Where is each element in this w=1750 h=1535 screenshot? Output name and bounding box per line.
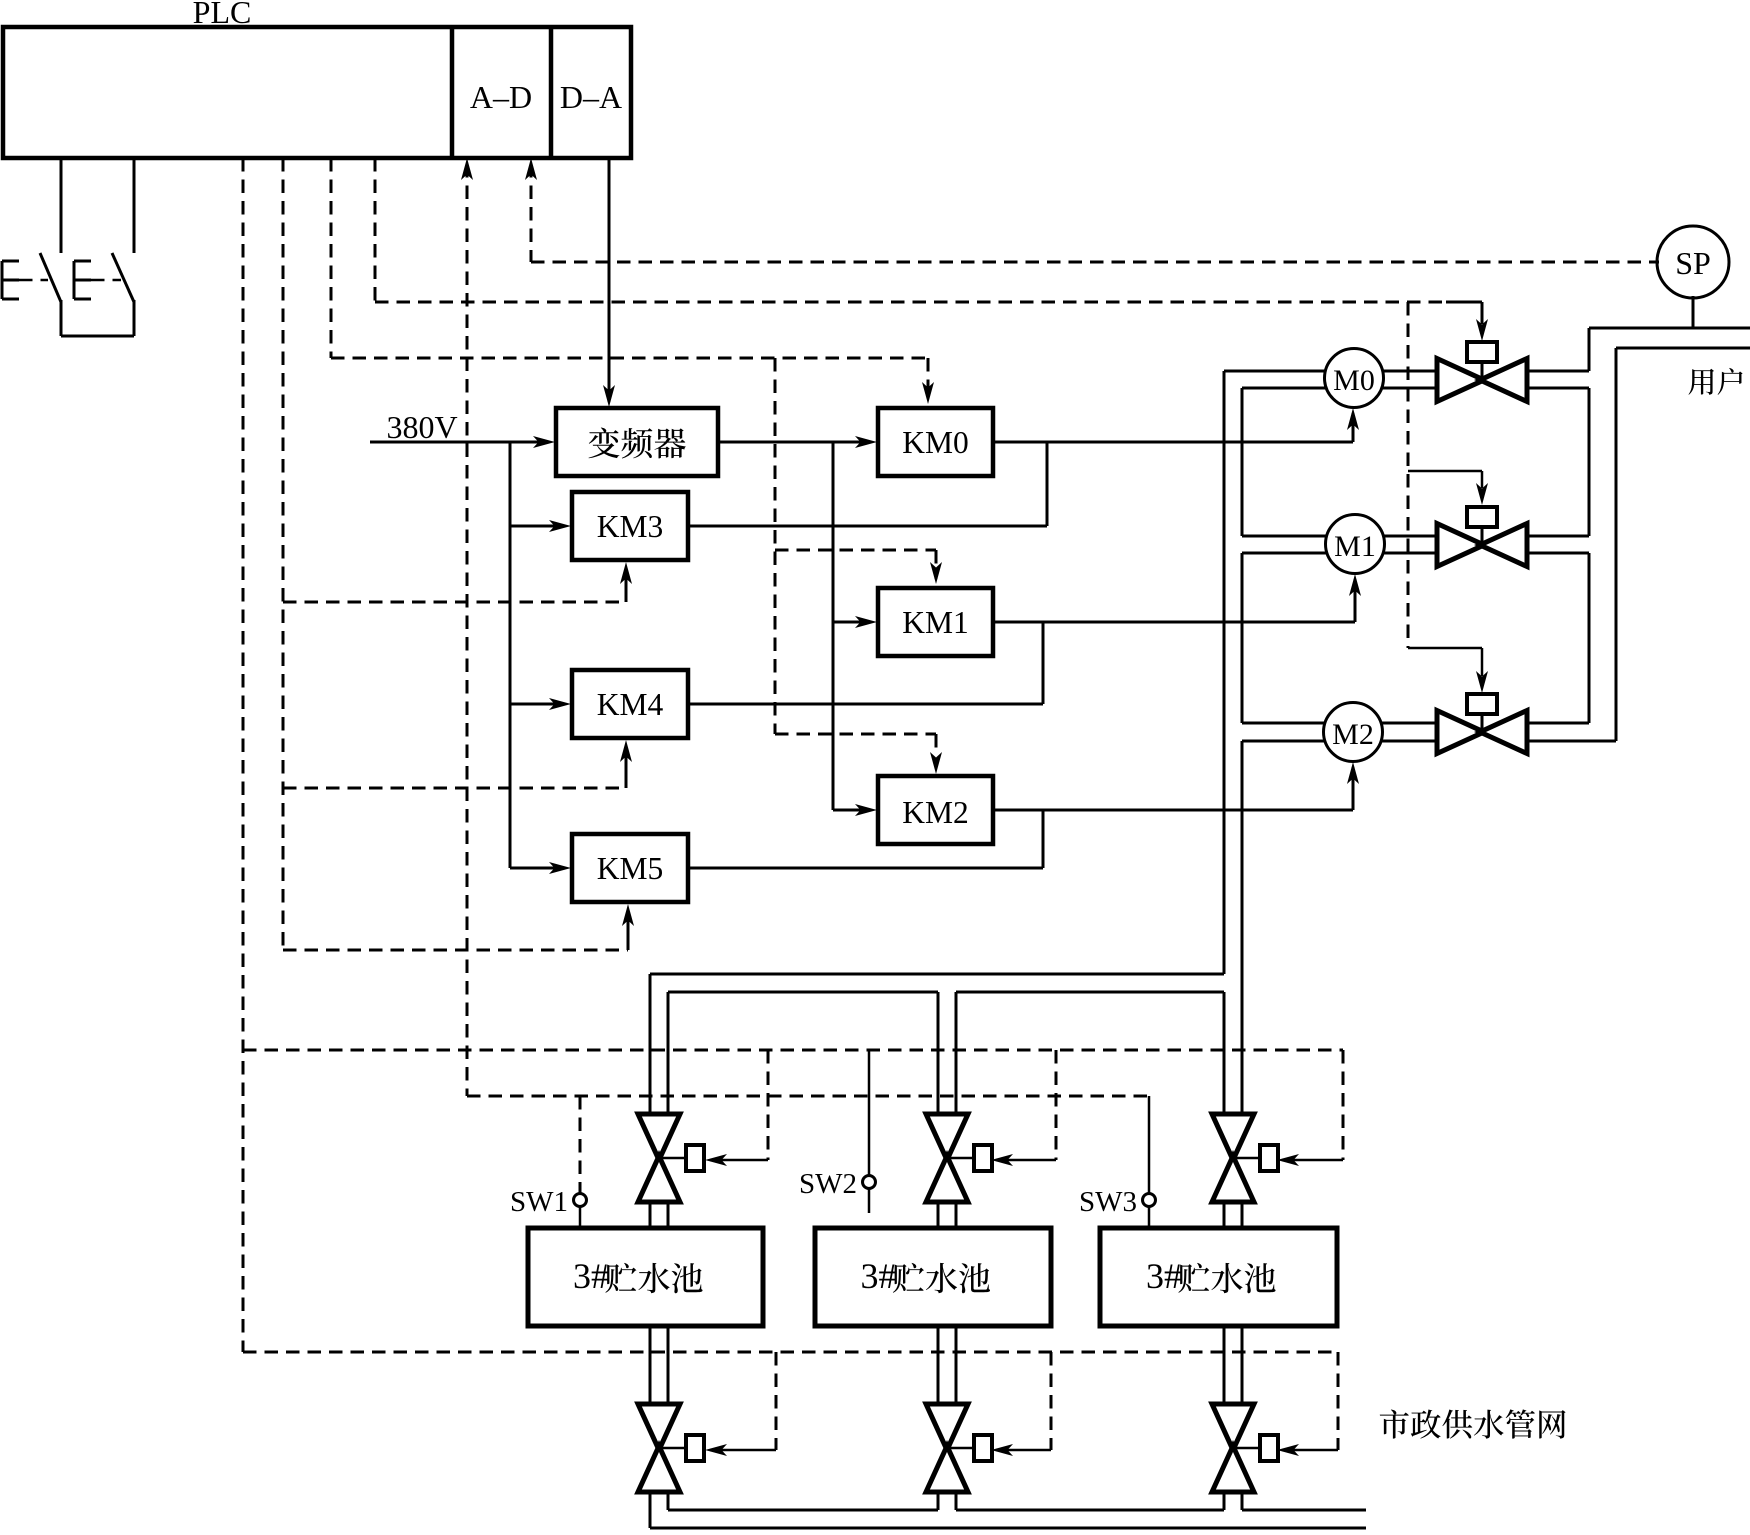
- pipe pump M1 to valve V1: [1355, 536, 1437, 553]
- wire PLC to switch SB2: [133, 158, 136, 253]
- D-A module label: [560, 79, 622, 115]
- wire KM3 output joins M0 feed: [688, 442, 1047, 526]
- contactor KM4 box: [572, 670, 688, 738]
- control drop to valve VS2 actuator: [991, 1050, 1056, 1166]
- control line to KM4 coil: [283, 740, 632, 788]
- control line to KM0 coil: [331, 358, 934, 404]
- svg-text:M0: M0: [1333, 364, 1375, 397]
- control line PLC output x243 (to bottom valves): [242, 158, 245, 1352]
- wire inverter output to KM0: [718, 436, 877, 448]
- PLC A-D module divider: [450, 27, 455, 158]
- tank 2 box: [815, 1228, 1051, 1326]
- tank 1 box: [528, 1228, 763, 1326]
- wire KM0 to pump M0: [993, 408, 1359, 442]
- PLC D-A module divider: [549, 27, 554, 158]
- wire below SB2: [133, 300, 136, 336]
- pipe tank2 outlet riser: [938, 992, 956, 1228]
- level switch SW1: [510, 1096, 587, 1228]
- pipe discharge manifold left line: [1588, 328, 1591, 723]
- svg-text:KM2: KM2: [902, 795, 969, 830]
- control line to valve V1 actuator: [1408, 471, 1488, 505]
- switch SB2 contact blade: [112, 253, 134, 302]
- svg-text:M1: M1: [1334, 530, 1376, 563]
- svg-text:A–D: A–D: [470, 79, 532, 115]
- link SB1 operator to blade: [19, 279, 48, 282]
- svg-text:SP: SP: [1675, 245, 1711, 281]
- signal bus level switches: [467, 1095, 1149, 1098]
- valve VF2 (tank2 fill): [926, 1404, 992, 1492]
- pipe riser to pump M2: [1242, 723, 1353, 741]
- pipe pump M0 to valve V0: [1354, 371, 1437, 388]
- contactor KM3 box: [572, 492, 688, 560]
- svg-text:380V: 380V: [386, 409, 457, 445]
- control drop to valve VS3 actuator: [1277, 1050, 1343, 1166]
- control drop to valve VF2 actuator: [991, 1352, 1051, 1456]
- control line to KM3 coil: [283, 562, 632, 602]
- pipe suction riser right line: [1241, 388, 1244, 1114]
- control drop to valve VF1 actuator: [705, 1352, 776, 1456]
- wire switch bottom bus: [61, 335, 134, 338]
- pipe valve V1 to manifold: [1527, 536, 1589, 553]
- pump M0: [1325, 349, 1384, 408]
- svg-text:D–A: D–A: [560, 79, 622, 115]
- wire 380V supply: [370, 436, 555, 448]
- pipe to user upper line: [1589, 327, 1750, 330]
- pipe municipal main lower line: [650, 1527, 1366, 1530]
- svg-text:M2: M2: [1332, 718, 1374, 751]
- wire 380V to KM4: [510, 698, 571, 710]
- wire 380V to KM5: [510, 862, 571, 874]
- pump M1: [1326, 515, 1385, 574]
- control line to valve V2 actuator: [1408, 648, 1488, 693]
- municipal network label: [1380, 1409, 1566, 1438]
- valve VF1 (tank1 fill): [638, 1404, 704, 1492]
- control line to valve V0 actuator: [375, 302, 1488, 341]
- svg-text:3#: 3#: [573, 1256, 609, 1296]
- wire KM2 to pump M2: [993, 762, 1359, 810]
- pipe to user lower line: [1616, 347, 1750, 350]
- A-D module label: [470, 79, 532, 115]
- pipe tank3 bottom: [1224, 1326, 1242, 1510]
- control line PLC output x375 (to discharge valves): [374, 158, 377, 302]
- wire 380V branch vertical: [509, 442, 512, 868]
- svg-text:SW2: SW2: [799, 1168, 857, 1200]
- pipe tank3 neck: [1224, 1202, 1242, 1228]
- control line PLC output x331 (to KM0/1/2 coils): [330, 158, 333, 358]
- pipe tank2 bottom: [938, 1326, 956, 1510]
- pipe suction riser left line: [1223, 371, 1226, 1114]
- level switch SW3: [1079, 1096, 1156, 1228]
- pump M2: [1324, 703, 1383, 762]
- pipe tank1 bottom: [650, 1326, 668, 1528]
- control drop to valve VS1 actuator: [705, 1050, 768, 1166]
- wire KM5 output joins M2 feed: [688, 810, 1043, 868]
- svg-text:3#: 3#: [861, 1256, 897, 1296]
- level switch SW2: [799, 1050, 876, 1213]
- wire 380V to KM3: [510, 520, 571, 532]
- valve V2 (pump M2 discharge): [1437, 694, 1527, 754]
- wire PLC to switch SB1: [60, 158, 63, 253]
- pressure sensor SP: [1657, 226, 1729, 298]
- switch SB1 contact blade: [40, 253, 61, 302]
- contactor KM5 box: [572, 834, 688, 902]
- signal line into PLC A-D x531 (pressure SP): [525, 158, 537, 262]
- valve V1 (pump M1 discharge): [1437, 507, 1527, 567]
- signal line SP to PLC A-D: [531, 261, 1659, 264]
- svg-text:SW1: SW1: [510, 1186, 568, 1218]
- control branch vertical x775: [774, 358, 777, 734]
- PLC label: [193, 0, 252, 30]
- control line PLC output x283 (to KM3/4/5 coils): [282, 158, 285, 950]
- contactor KM0 box: [878, 408, 993, 476]
- valve VS3 (tank3 suction): [1212, 1114, 1278, 1202]
- wire KM4 output joins M1 feed: [688, 622, 1043, 704]
- pipe valve V2 to manifold: [1527, 723, 1616, 741]
- valve VF3 (tank3 fill): [1212, 1404, 1278, 1492]
- control drop to valve VF3 actuator: [1277, 1352, 1338, 1456]
- control line to KM2 coil: [775, 734, 942, 774]
- switch SB1 operator head: [2, 261, 19, 299]
- svg-text:KM4: KM4: [597, 687, 664, 722]
- pipe discharge manifold right line: [1615, 348, 1618, 741]
- svg-text:KM3: KM3: [597, 509, 664, 544]
- control bus to fill valves: [243, 1351, 1338, 1354]
- PLC controller box: [3, 27, 631, 158]
- pipe suction manifold lower line: [668, 991, 1224, 994]
- wire KM1 to pump M1: [993, 574, 1361, 622]
- contactor KM1 box: [878, 588, 993, 656]
- 380V label: [386, 409, 457, 445]
- link SB2 operator to blade: [91, 279, 121, 282]
- wire inverter output branch vertical: [832, 442, 835, 810]
- svg-text:KM1: KM1: [902, 605, 969, 640]
- switch SB2 operator head: [74, 261, 91, 299]
- svg-text:KM5: KM5: [597, 851, 664, 886]
- analog line PLC D-A to inverter: [603, 158, 615, 407]
- wire inverter output to KM2: [833, 804, 877, 816]
- pipe riser to pump M0: [1224, 371, 1354, 388]
- valve VS2 (tank2 suction): [926, 1114, 992, 1202]
- pipe suction manifold upper line: [650, 973, 1224, 976]
- valve V0 (pump M0 discharge): [1437, 342, 1527, 402]
- valve VS1 (tank1 suction): [638, 1114, 704, 1202]
- pipe pump M2 to valve V2: [1353, 723, 1437, 741]
- svg-text:KM0: KM0: [902, 425, 969, 460]
- user load label: [1689, 368, 1743, 395]
- pipe riser to pump M1: [1242, 536, 1355, 553]
- svg-text:SW3: SW3: [1079, 1186, 1137, 1218]
- contactor KM2 box: [878, 776, 993, 844]
- control line to KM1 coil: [775, 550, 942, 584]
- control branch vertical x1408: [1407, 302, 1410, 648]
- pipe municipal main upper line: [668, 1509, 1366, 1512]
- pipe valve V0 to manifold: [1527, 371, 1589, 388]
- control bus to suction valves: [243, 1049, 1343, 1052]
- tank 3 box: [1100, 1228, 1337, 1326]
- wire below SB1: [60, 300, 63, 336]
- wire inverter output to KM1: [833, 616, 877, 628]
- pipe tap SP to manifold: [1692, 296, 1695, 328]
- inverter U1 box: [556, 408, 718, 476]
- pipe tank1 outlet riser: [650, 974, 668, 1228]
- control line to KM5 coil: [283, 904, 634, 950]
- signal line into PLC A-D x467 (level switches): [461, 158, 473, 1096]
- svg-text:3#: 3#: [1146, 1256, 1182, 1296]
